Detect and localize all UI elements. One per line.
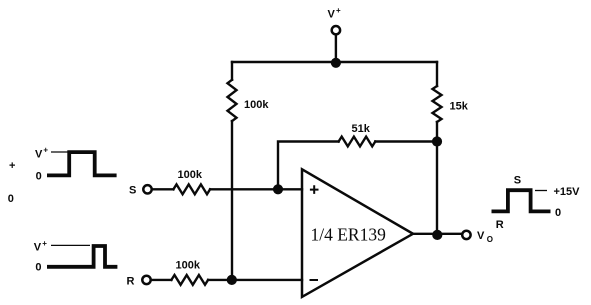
reference line V+ level (R waveform) — [51, 244, 90, 246]
svg-text:0: 0 — [8, 193, 14, 205]
terminal R input — [142, 276, 150, 284]
wire right vertical from 15k to output node — [436, 122, 438, 235]
wire 51k left segment — [278, 142, 339, 190]
svg-text:+: + — [336, 6, 341, 15]
op-amp - input symbol — [310, 279, 319, 281]
junction 15k / 51k node — [432, 136, 442, 146]
resistor R5 51k (horizontal feedback) — [339, 137, 376, 147]
svg-text:0: 0 — [35, 262, 41, 274]
terminal S input — [143, 185, 151, 193]
svg-text:R: R — [496, 219, 504, 231]
wire op-amp output to Vo terminal — [413, 233, 462, 235]
resistor R3 100k (R input) — [171, 275, 208, 285]
R input pulse waveform — [47, 246, 117, 267]
svg-text:S: S — [129, 185, 136, 197]
svg-text:+: + — [42, 239, 47, 248]
svg-text:15k: 15k — [450, 101, 469, 113]
wire R line to op-amp - input — [208, 279, 302, 281]
svg-text:O: O — [487, 235, 493, 244]
junction R line / left vertical — [227, 275, 237, 285]
terminal Vo output — [462, 231, 470, 239]
output waveform group — [492, 174, 581, 231]
S input waveform group — [35, 146, 117, 183]
wire S terminal to 100k — [153, 188, 174, 190]
svg-text:100k: 100k — [244, 99, 269, 111]
wire left vertical lead from rail — [231, 62, 233, 80]
wire R terminal to 100k — [152, 279, 172, 281]
svg-text:V: V — [34, 242, 42, 254]
wire left vertical below 100k down to R line — [231, 121, 233, 280]
resistor R2 100k (S input) — [173, 184, 210, 194]
svg-text:V: V — [35, 148, 43, 160]
reference line +15V level — [535, 190, 547, 192]
svg-text:+: + — [9, 160, 15, 172]
svg-text:100k: 100k — [176, 259, 201, 271]
svg-text:51k: 51k — [352, 123, 371, 135]
terminal V+ — [332, 26, 340, 34]
wire V+ stub — [335, 34, 337, 63]
wire right vertical lead from rail — [436, 62, 438, 86]
junction output node — [432, 230, 442, 240]
svg-text:+: + — [43, 146, 48, 155]
svg-text:100k: 100k — [178, 169, 203, 181]
reference line V+ level (S waveform) — [51, 151, 68, 153]
svg-text:0: 0 — [36, 171, 42, 183]
svg-text:1/4 ER139: 1/4 ER139 — [311, 225, 387, 245]
op-amp + input symbol — [310, 185, 319, 194]
resistor R4 15k (vertical, right) — [433, 86, 442, 122]
resistor R1 100k (vertical, left) — [228, 80, 237, 121]
wire 51k right segment to node — [375, 140, 437, 142]
op-amp U1 1/4 ER139 — [302, 169, 413, 297]
wire top supply rail — [232, 61, 437, 63]
S input pulse waveform — [47, 152, 117, 175]
output pulse waveform — [492, 190, 551, 211]
svg-text:0: 0 — [555, 207, 561, 219]
svg-text:+15V: +15V — [554, 186, 581, 198]
svg-text:V: V — [328, 9, 336, 21]
wire S line to op-amp + input — [210, 188, 302, 190]
svg-text:S: S — [514, 174, 521, 186]
junction V+ rail — [331, 58, 341, 68]
junction S line / 51k — [273, 184, 283, 194]
R input waveform group — [34, 239, 118, 274]
svg-text:V: V — [477, 230, 485, 242]
svg-text:R: R — [127, 276, 135, 288]
